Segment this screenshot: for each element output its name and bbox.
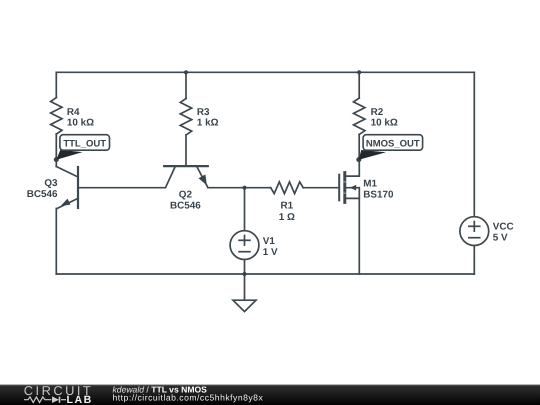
svg-text:R4: R4 bbox=[67, 107, 80, 118]
svg-text:VCC: VCC bbox=[493, 221, 514, 232]
svg-text:10 kΩ: 10 kΩ bbox=[67, 118, 94, 129]
svg-text:NMOS_OUT: NMOS_OUT bbox=[366, 138, 420, 149]
svg-text:10 kΩ: 10 kΩ bbox=[371, 118, 398, 129]
svg-text:M1: M1 bbox=[363, 179, 377, 190]
svg-text:Q2: Q2 bbox=[179, 190, 193, 201]
svg-text:LAB: LAB bbox=[67, 394, 93, 405]
svg-text:R2: R2 bbox=[371, 107, 384, 118]
svg-text:http://circuitlab.com/cc5hhkfy: http://circuitlab.com/cc5hhkfyn8y8x bbox=[113, 393, 264, 403]
svg-text:BS170: BS170 bbox=[363, 189, 394, 200]
svg-text:Q3: Q3 bbox=[44, 178, 58, 189]
svg-text:BC546: BC546 bbox=[170, 201, 201, 212]
svg-text:1 kΩ: 1 kΩ bbox=[197, 118, 219, 129]
svg-text:R3: R3 bbox=[197, 107, 210, 118]
svg-text:V1: V1 bbox=[263, 236, 276, 247]
svg-text:1 V: 1 V bbox=[263, 247, 278, 258]
svg-text:5 V: 5 V bbox=[493, 232, 508, 243]
svg-text:BC546: BC546 bbox=[27, 189, 58, 200]
svg-text:1 Ω: 1 Ω bbox=[279, 212, 295, 223]
svg-text:TTL_OUT: TTL_OUT bbox=[63, 139, 106, 150]
svg-text:R1: R1 bbox=[280, 200, 293, 211]
